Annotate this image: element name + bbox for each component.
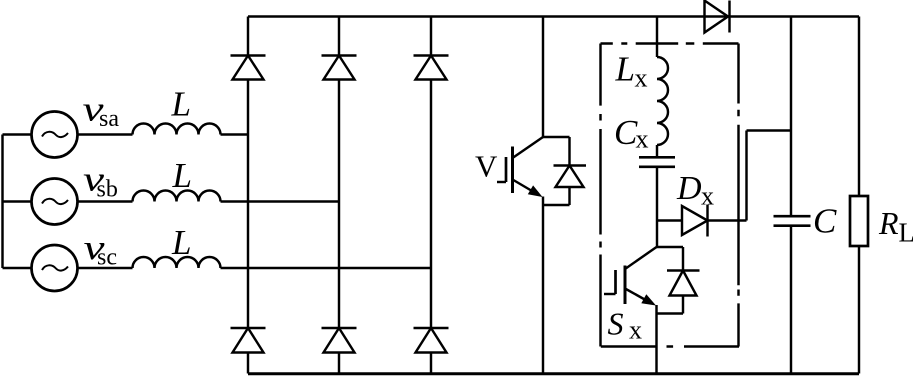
wire v_sb to L [78,200,133,202]
transistor V (IGBT) [497,137,543,197]
wire Dx to output node [747,129,792,131]
label v_sa [83,89,120,132]
label v_sc [84,228,118,271]
diode antiparallel with V [554,137,587,205]
wire V collector [542,17,544,138]
svg-text:V: V [475,149,498,184]
inductor L phase a [133,124,221,135]
diode bridge top 3 [414,56,449,80]
wire V top jog [543,136,570,138]
wire RL branch bottom [858,246,860,374]
wire L to bridge leg 2 [221,200,340,202]
capacitor Cx [639,157,675,167]
wire top rail [248,15,859,17]
wire phase a stub [3,133,32,135]
wire Dx cathode [708,219,747,221]
wire L to bridge leg 1 [221,133,249,135]
diode antiparallel with Sx [667,247,700,314]
wire v_sa to L [78,133,133,135]
svg-text:R: R [878,205,899,241]
inductor Lx [657,57,668,145]
svg-text:C: C [813,202,837,241]
diode boost (top rail) [705,1,730,33]
AC source v_sc [32,245,78,291]
left bus wire [1,135,3,269]
inductor L phase b [133,191,221,202]
wire C branch bottom [790,226,792,374]
svg-text:x: x [635,64,648,93]
svg-text:L: L [171,85,191,124]
label Cx [614,113,649,154]
wire Sx bottom jog [657,312,684,314]
wire Cx to Dx/Sx node [656,167,658,247]
svg-text:sa: sa [99,106,119,132]
svg-text:L: L [172,156,192,195]
diode bridge top 1 [231,56,266,80]
wire bridge leg 1 [247,17,249,374]
wire bridge leg 2 [338,17,340,374]
label Lx [615,50,648,93]
svg-text:sb: sb [97,177,118,203]
wire bridge leg 3 [430,17,432,374]
inductor L phase c [133,257,221,268]
diode Dx [682,205,708,237]
AC source v_sb [32,179,78,225]
transistor Sx (IGBT) [604,247,657,306]
wire Sx emitter [655,305,657,374]
wire bottom rail [248,372,859,375]
svg-text:x: x [636,125,649,154]
wire Dx riser [745,131,747,221]
wire Lx top [656,17,658,58]
wire Lx to Cx [656,145,658,157]
svg-text:L: L [615,50,635,89]
wire Sx top jog [657,246,684,248]
wire phase b stub [3,200,32,202]
svg-text:L: L [899,218,913,248]
label RL [878,205,913,248]
svg-text:x: x [701,182,714,211]
svg-text:S: S [608,306,624,342]
svg-text:x: x [629,316,642,345]
label v_sb [83,159,118,202]
wire Dx anode [657,219,682,221]
diode bridge top 2 [322,56,357,80]
wire v_sc to L [78,267,133,269]
label Dx [676,170,714,211]
diode bridge bottom 2 [322,328,357,353]
wire V emitter [542,197,544,374]
wire RL branch top [858,17,860,197]
capacitor C [774,216,811,226]
dash-dot snubber box [601,44,740,347]
svg-text:D: D [676,170,702,207]
wire L to bridge leg 3 [221,267,432,269]
svg-text:L: L [171,223,191,262]
svg-text:sc: sc [97,245,117,271]
diode bridge bottom 1 [231,328,266,353]
diode bridge bottom 3 [414,328,449,353]
wire V bottom jog [543,204,570,206]
wire phase c stub [3,267,32,269]
label Sx [608,306,643,345]
AC source v_sa [32,112,78,158]
svg-text:C: C [614,113,638,152]
wire C branch top [790,17,792,217]
resistor RL [850,196,868,246]
